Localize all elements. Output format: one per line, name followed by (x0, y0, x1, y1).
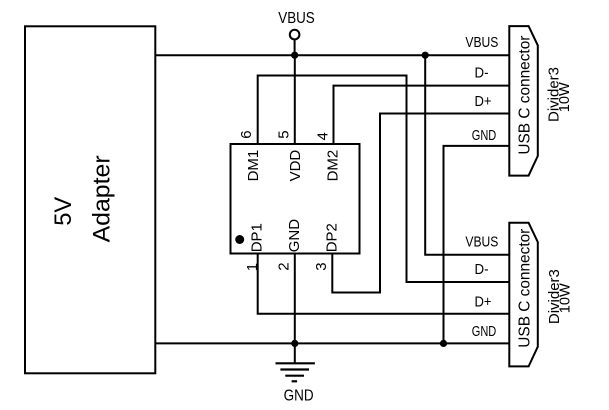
svg-text:DM2: DM2 (325, 150, 342, 182)
connector J2 USB C body (509, 223, 538, 367)
wire DP2 pin3 to J1 D+ (332, 114, 509, 293)
svg-text:Adapter: Adapter (89, 155, 116, 242)
svg-text:2: 2 (275, 262, 292, 270)
svg-text:GND: GND (472, 324, 497, 340)
svg-text:DP1: DP1 (249, 223, 266, 252)
wire VDD pin5 to VBUS rail (294, 55, 296, 144)
node VBUS terminal (290, 30, 300, 55)
svg-text:DP2: DP2 (323, 223, 340, 252)
wire GND rail (155, 342, 509, 344)
svg-text:GND: GND (286, 219, 303, 253)
svg-text:VBUS: VBUS (465, 234, 498, 250)
ground symbol (276, 343, 315, 381)
connector J1 USB C body (509, 26, 538, 176)
svg-text:6: 6 (238, 130, 255, 138)
svg-text:USB C connector: USB C connector (516, 229, 533, 348)
op IC U1 box (231, 144, 360, 254)
junction GND rail / pin2 (291, 340, 298, 347)
wire VBUS rail to J2 VBUS (425, 55, 509, 255)
svg-text:3: 3 (313, 262, 330, 270)
junction GND rail / J1 GND (440, 340, 447, 347)
wire GND pin2 to GND rail (294, 254, 296, 344)
svg-text:5V: 5V (50, 197, 77, 226)
svg-text:D+: D+ (475, 94, 492, 110)
svg-text:D-: D- (475, 66, 489, 82)
svg-text:1: 1 (244, 263, 261, 271)
svg-text:DM1: DM1 (245, 150, 262, 182)
adapter PS1 box (25, 26, 155, 373)
svg-text:VBUS: VBUS (465, 35, 498, 51)
svg-text:5: 5 (275, 130, 292, 138)
svg-text:GND: GND (284, 388, 314, 405)
wire DM1 pin6 to J2 D- (258, 76, 510, 283)
svg-text:4: 4 (314, 132, 331, 140)
svg-text:USB C connector: USB C connector (516, 36, 533, 155)
svg-text:GND: GND (472, 128, 497, 144)
svg-text:10W: 10W (556, 81, 573, 112)
svg-text:VDD: VDD (287, 150, 304, 182)
svg-text:D+: D+ (475, 294, 492, 310)
junction VBUS rail / J2 VBUS (422, 52, 429, 59)
wire VBUS rail (155, 54, 509, 56)
svg-text:VBUS: VBUS (278, 10, 315, 27)
wire DM2 pin4 to J1 D- (334, 86, 510, 144)
wire DP1 pin1 to J2 D+ (258, 254, 510, 314)
svg-text:D-: D- (475, 262, 489, 278)
wire GND rail to J1 GND (444, 146, 510, 344)
junction VBUS rail / VDD (291, 52, 298, 59)
svg-text:10W: 10W (556, 282, 573, 313)
